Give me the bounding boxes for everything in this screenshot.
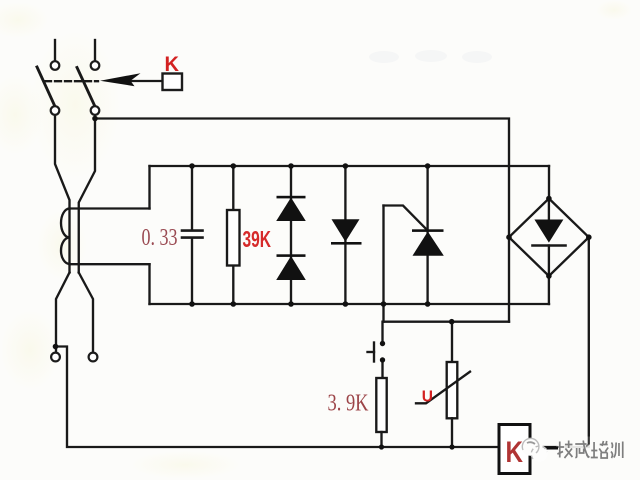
svg-text:U: U	[422, 389, 433, 406]
svg-text:3. 9K: 3. 9K	[328, 391, 370, 417]
svg-text:39K: 39K	[243, 226, 272, 252]
svg-text:K: K	[165, 53, 180, 76]
svg-text:0. 33: 0. 33	[142, 225, 178, 251]
svg-text:K: K	[506, 436, 524, 469]
